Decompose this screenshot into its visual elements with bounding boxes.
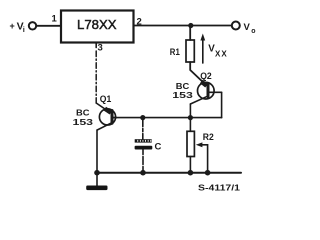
arrow Vxx [200,34,205,64]
svg-text:C: C [155,142,162,153]
svg-text:1: 1 [52,14,58,25]
svg-text:Q1: Q1 [100,94,112,105]
wire pin 2 to Vo terminal [134,25,232,27]
junction ground node [94,170,100,176]
label +Vi [10,21,25,34]
wire Q1 collector down to ground node [96,130,98,173]
label BC 153 (Q1) [73,108,94,128]
svg-text:BC: BC [76,108,90,118]
wiper arrow R2 [196,142,208,172]
wire Q2 collector down to node [189,104,191,118]
svg-text:153: 153 [172,90,193,100]
svg-text:L78XX: L78XX [77,17,117,32]
wire pin 3 to Q1 emitter (dash-dot) [95,51,97,103]
resistor R1 [186,40,194,62]
ground [86,173,107,190]
junction R2 wiper bottom [205,170,211,176]
svg-text:V: V [244,22,251,33]
transistor Q2 (BC153) [190,82,221,105]
svg-text:Q2: Q2 [200,71,212,82]
svg-text:R2: R2 [203,132,214,143]
junction node Vo / R1 top [188,23,193,28]
wire Q2 base to rail corner [221,92,223,117]
label Vxx [208,43,227,58]
terminal +Vi [29,22,36,29]
wire capacitor C bottom to rail [142,150,144,173]
wire Vi terminal to pin 1 [36,25,61,27]
terminal Vo [232,22,240,30]
wire node to R2 top [189,118,191,132]
svg-text:153: 153 [73,117,94,127]
bottom rail wire [97,172,241,174]
svg-text:o: o [251,28,255,35]
junction node R2 top [188,115,193,120]
svg-text:i: i [23,25,25,34]
wire node to R1 top [189,26,191,41]
junction C bottom [140,170,146,176]
label BC 153 (Q2) [172,81,193,100]
wire dash-dot elbow to Q1 [96,103,109,112]
wire base rail Q1 to Q2 corner [114,117,222,119]
junction R2 bottom [188,170,194,176]
junction node C top [140,115,145,120]
svg-text:3: 3 [98,43,103,54]
svg-text:R1: R1 [170,47,181,58]
svg-text:+: + [10,21,15,31]
svg-text:XX: XX [215,50,228,59]
capacitor C [135,139,153,149]
wire R1 bottom to Q2 emitter [190,62,205,85]
wire node to capacitor C [142,118,144,140]
regulator U1 L78XX [61,11,134,43]
svg-text:S-4117/1: S-4117/1 [198,183,240,192]
transistor Q1 (BC153) [97,109,116,130]
label Vo [244,22,256,35]
pin 3 stem [95,43,97,48]
wire R2 bottom to rail [189,157,191,173]
resistor R2 (adjustable) [187,131,194,156]
